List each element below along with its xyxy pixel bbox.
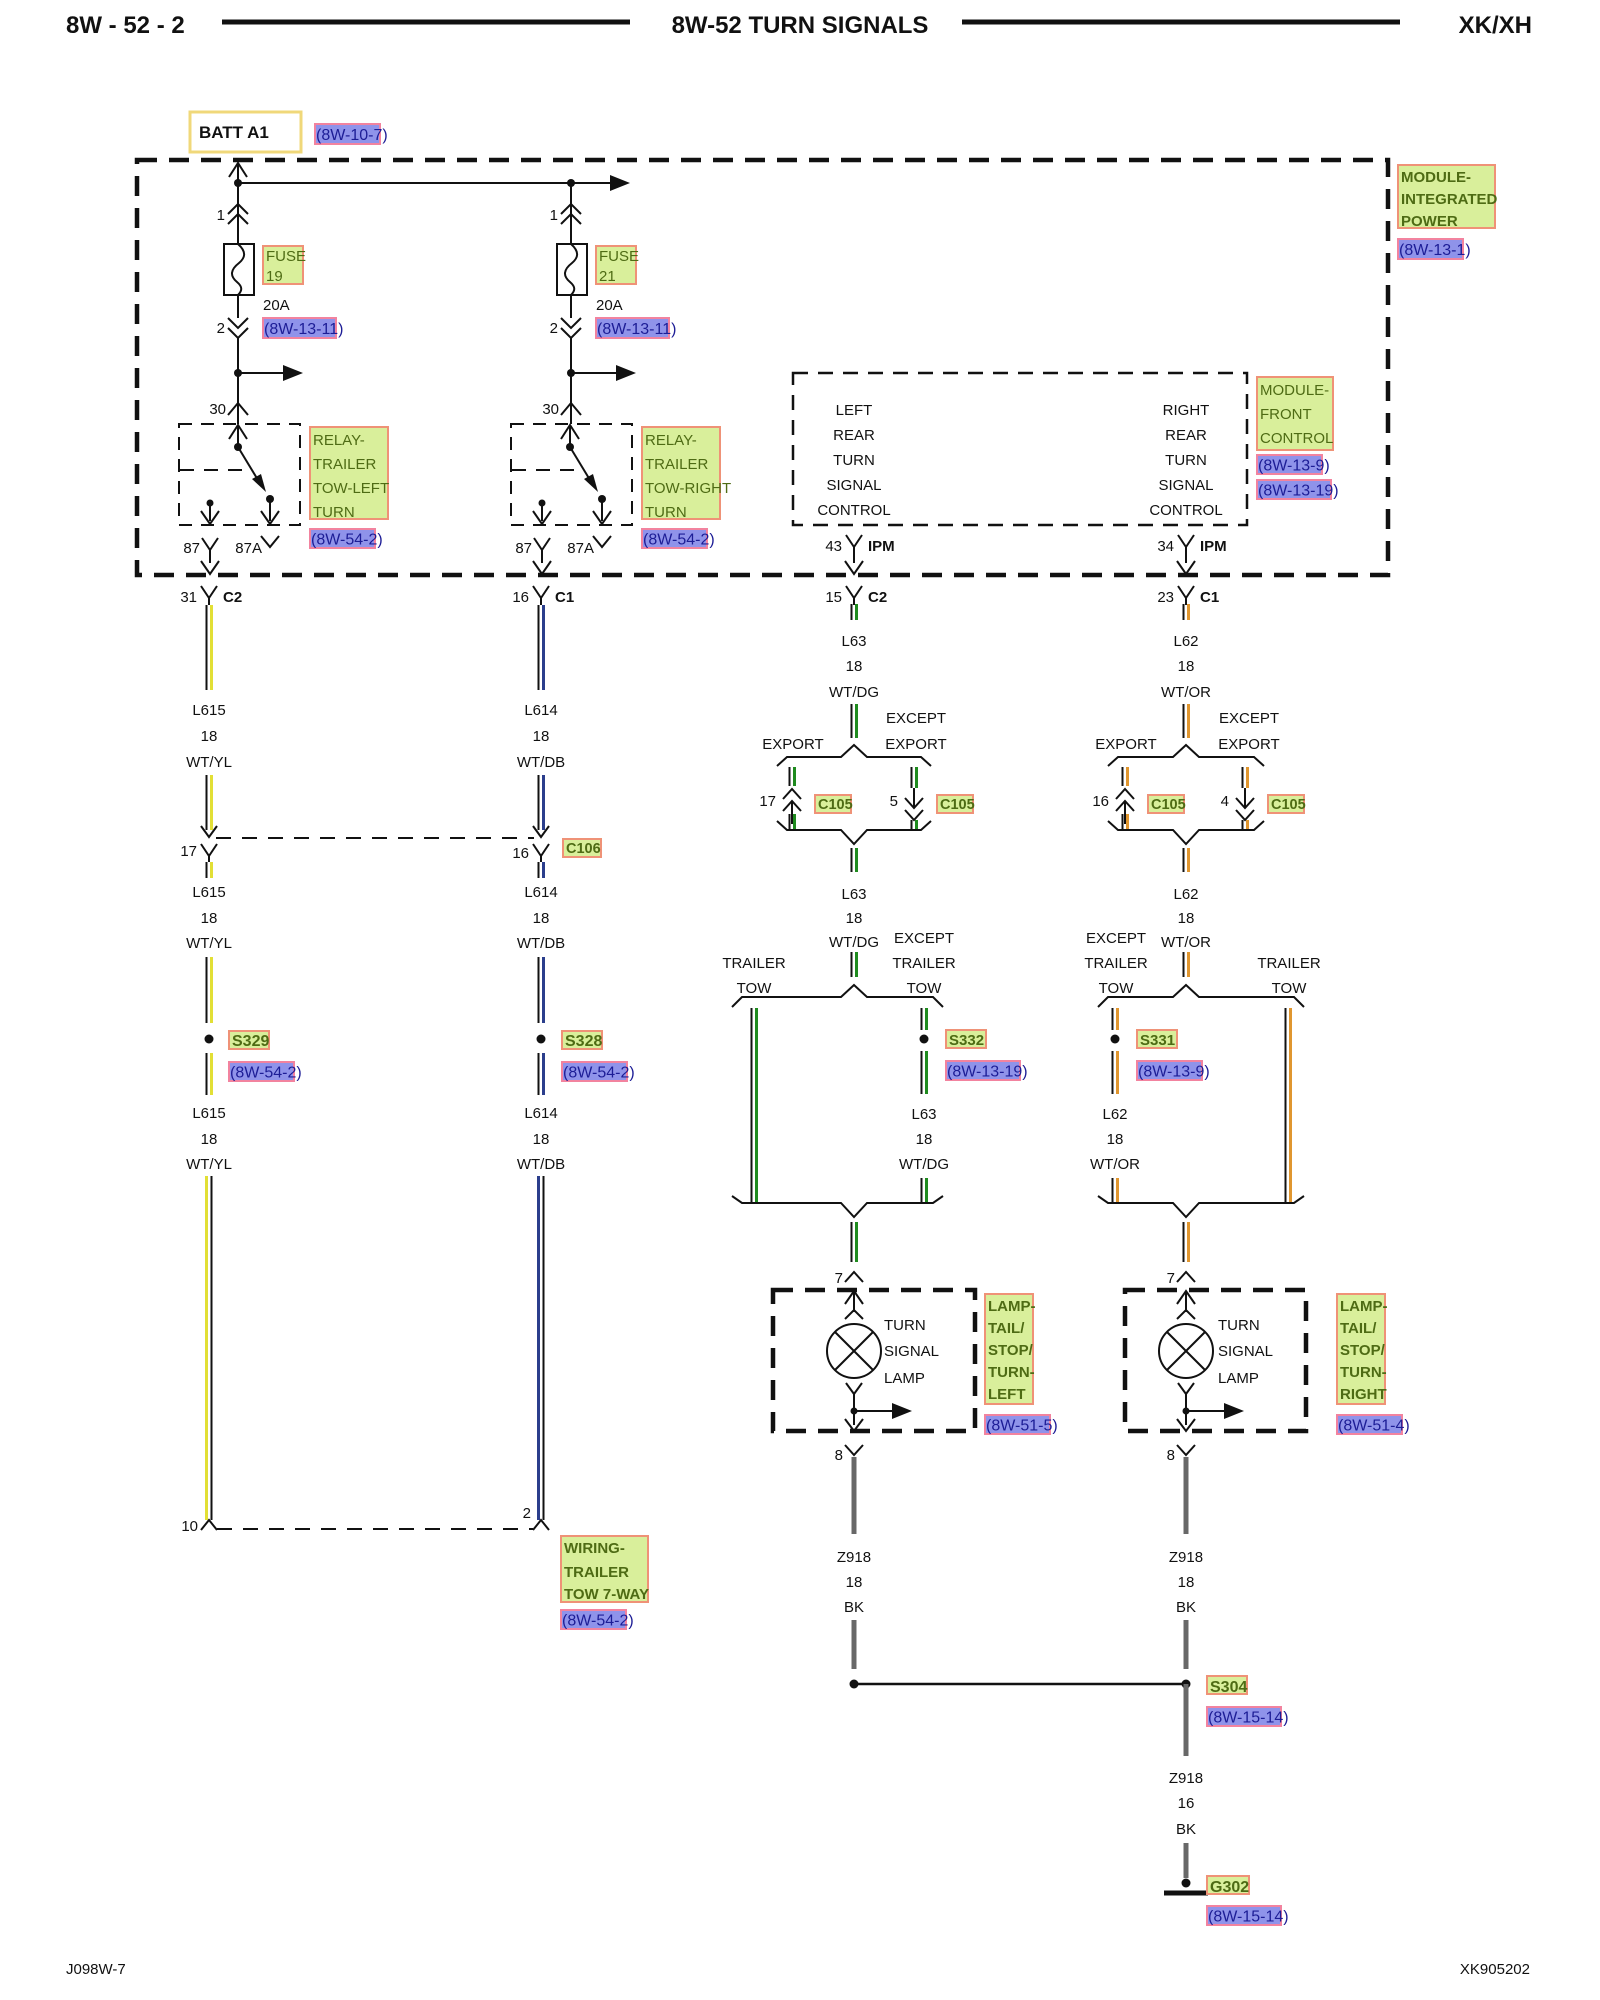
svg-text:TRAILER: TRAILER — [1084, 955, 1148, 972]
wire: to other lamp elements — [854, 1410, 896, 1412]
svg-text:MODULE-: MODULE- — [1260, 382, 1329, 399]
wire branch (export) via C105 pin 17 — [789, 767, 791, 786]
merge brace from C105 options — [777, 821, 931, 844]
svg-text:(8W-54-2): (8W-54-2) — [562, 1613, 634, 1630]
svg-text:S331: S331 — [1140, 1032, 1175, 1049]
wire L615 segment (WT/YL) — [206, 957, 208, 1023]
svg-text:(8W-10-7): (8W-10-7) — [316, 127, 388, 144]
wire branch (except export) via C105 pin 5 — [911, 767, 913, 788]
svg-text:WT/OR: WT/OR — [1090, 1156, 1140, 1173]
wire L615 long run to trailer tow connector — [205, 1176, 208, 1520]
svg-text:INTEGRATED: INTEGRATED — [1401, 191, 1498, 208]
svg-text:POWER: POWER — [1401, 213, 1458, 230]
wire L62 segment after export merge — [1183, 848, 1185, 872]
ground G302 — [1182, 1879, 1191, 1888]
svg-text:18: 18 — [846, 1574, 863, 1591]
svg-text:TRAILER: TRAILER — [892, 955, 956, 972]
svg-text:87A: 87A — [567, 540, 594, 557]
splice S329 — [205, 1035, 214, 1044]
power source box BATT A1 — [190, 112, 301, 152]
reference (8W-13-19) — [1257, 480, 1331, 499]
svg-text:1: 1 — [550, 207, 558, 224]
reference (8W-10-7) — [315, 124, 380, 144]
wire Z918 segment (BK) to ground — [1184, 1684, 1189, 1756]
svg-text:L614: L614 — [524, 884, 557, 901]
svg-text:(8W-54-2): (8W-54-2) — [230, 1065, 302, 1082]
wire L62 segment to export split — [1183, 704, 1185, 738]
merge brace to lamp feed — [1098, 1196, 1304, 1217]
wire: bus to fuse F19 — [237, 183, 239, 244]
svg-text:TURN: TURN — [884, 1317, 926, 1334]
turn signal lamp bulb — [827, 1324, 881, 1378]
svg-text:FUSE: FUSE — [599, 248, 639, 265]
svg-text:TRAILER: TRAILER — [313, 456, 377, 473]
reference (8W-54-2) — [229, 1062, 294, 1081]
fuse F21 — [557, 244, 587, 295]
svg-text:WT/DG: WT/DG — [829, 934, 879, 951]
svg-text:18: 18 — [846, 658, 863, 675]
svg-text:MODULE-: MODULE- — [1401, 169, 1471, 186]
wire branch (trailer tow) long run — [751, 1008, 753, 1203]
wire L615 segment (WT/YL) — [206, 605, 208, 690]
svg-text:19: 19 — [266, 268, 283, 285]
svg-text:(8W-54-2): (8W-54-2) — [563, 1065, 635, 1082]
wire L62 to lamp pin 7 — [1183, 1222, 1185, 1262]
svg-text:8: 8 — [835, 1447, 843, 1464]
svg-text:EXCEPT: EXCEPT — [894, 930, 954, 947]
wire branch to splice S332 — [921, 1008, 923, 1030]
lamp return node — [846, 1383, 862, 1394]
svg-text:TURN: TURN — [1218, 1317, 1260, 1334]
svg-text:REAR: REAR — [1165, 427, 1207, 444]
pin 2 in-line connector (fuse F19) — [237, 295, 239, 318]
svg-text:C2: C2 — [868, 589, 887, 606]
svg-text:EXPORT: EXPORT — [1095, 736, 1156, 753]
svg-text:(8W-13-9): (8W-13-9) — [1258, 458, 1330, 475]
svg-text:8W - 52 - 2: 8W - 52 - 2 — [66, 12, 185, 39]
svg-text:30: 30 — [542, 401, 559, 418]
relay contact 87 to box edge — [539, 500, 546, 507]
svg-text:TOW: TOW — [907, 980, 943, 997]
svg-text:17: 17 — [180, 843, 197, 860]
svg-text:87A: 87A — [235, 540, 262, 557]
svg-text:18: 18 — [846, 910, 863, 927]
node: bus tap at fuse 19 — [234, 179, 242, 187]
svg-text:XK905202: XK905202 — [1460, 1961, 1530, 1978]
svg-text:8: 8 — [1167, 1447, 1175, 1464]
svg-text:10: 10 — [181, 1518, 198, 1535]
wire L614 segment (WT/DB) — [538, 1053, 540, 1095]
svg-text:BK: BK — [844, 1599, 864, 1616]
svg-text:TOW-LEFT: TOW-LEFT — [313, 480, 389, 497]
wire Z918 segment (BK) — [1184, 1620, 1189, 1669]
wire: tap arrow to other circuits — [238, 372, 283, 374]
label MODULE-INTEGRATED POWER — [1398, 165, 1495, 228]
svg-text:STOP/: STOP/ — [988, 1342, 1034, 1359]
svg-text:17: 17 — [759, 793, 776, 810]
label RELAY-TRAILER TOW-LEFT TURN — [310, 427, 388, 519]
reference (8W-13-11) — [263, 318, 336, 338]
svg-text:7: 7 — [835, 1270, 843, 1287]
wire branch to splice S331 — [1112, 1008, 1114, 1030]
svg-text:LEFT: LEFT — [836, 402, 873, 419]
lamp assembly box (TURN-LEFT) — [773, 1290, 975, 1431]
svg-text:TRAILER: TRAILER — [1257, 955, 1321, 972]
svg-text:L63: L63 — [911, 1106, 936, 1123]
svg-text:C105: C105 — [818, 797, 853, 813]
svg-text:TRAILER: TRAILER — [564, 1564, 629, 1581]
wire L615 segment (WT/YL) — [206, 775, 208, 830]
svg-text:(8W-51-5): (8W-51-5) — [986, 1418, 1058, 1435]
label MODULE-FRONT CONTROL — [1257, 377, 1333, 450]
wire: tap to relay pin 30 — [237, 373, 239, 424]
wire: top power bus — [238, 182, 610, 184]
svg-text:21: 21 — [599, 268, 616, 285]
node: junction into S304 bus — [850, 1680, 859, 1689]
lamp feed from pin 7 — [1177, 1291, 1195, 1304]
svg-text:WT/DB: WT/DB — [517, 935, 565, 952]
wire branch (trailer tow) long run — [1285, 1008, 1287, 1203]
svg-text:LAMP-: LAMP- — [988, 1298, 1036, 1315]
lamp return node — [1178, 1383, 1194, 1394]
svg-text:RELAY-: RELAY- — [313, 432, 365, 449]
label C105 — [1268, 795, 1304, 813]
reference (8W-51-5) — [985, 1415, 1050, 1434]
splice S328 — [537, 1035, 546, 1044]
svg-text:TURN: TURN — [1165, 452, 1207, 469]
svg-text:FUSE: FUSE — [266, 248, 306, 265]
pin 10 at trailer-tow connector — [201, 1520, 217, 1530]
connector WIRING-TRAILER TOW 7-WAY (dashed in-line) — [217, 1528, 533, 1530]
svg-text:TURN: TURN — [645, 504, 687, 521]
svg-text:18: 18 — [1107, 1131, 1124, 1148]
svg-text:2: 2 — [550, 320, 558, 337]
svg-text:(8W-13-19): (8W-13-19) — [1258, 483, 1339, 500]
svg-text:EXCEPT: EXCEPT — [1086, 930, 1146, 947]
svg-text:(8W-54-2): (8W-54-2) — [643, 532, 715, 549]
wire Z918 segment (BK) right lamp — [1184, 1457, 1189, 1534]
svg-text:TURN: TURN — [833, 452, 875, 469]
wire L62 below splice — [1112, 1051, 1114, 1094]
relay K-trailer-tow right turn (dashed box) — [511, 424, 632, 525]
wire: fuse to relay tap — [570, 338, 572, 373]
node: tap junction — [567, 369, 575, 377]
node: bus tap at fuse 21 — [567, 179, 575, 187]
connector C106 (dashed in-line) — [216, 837, 534, 839]
svg-text:C2: C2 — [223, 589, 242, 606]
wire L63 segment to trailer-tow split — [851, 952, 853, 977]
svg-text:EXPORT: EXPORT — [762, 736, 823, 753]
header rule left — [222, 20, 630, 25]
relay contact 87 to box edge — [207, 500, 214, 507]
svg-text:18: 18 — [1178, 658, 1195, 675]
svg-text:CONTROL: CONTROL — [817, 502, 890, 519]
svg-text:TRAILER: TRAILER — [722, 955, 786, 972]
svg-text:J098W-7: J098W-7 — [66, 1961, 126, 1978]
svg-text:L615: L615 — [192, 884, 225, 901]
pin 8 — [845, 1445, 863, 1455]
svg-text:TURN: TURN — [313, 504, 355, 521]
svg-text:CONTROL: CONTROL — [1149, 502, 1222, 519]
svg-text:Z918: Z918 — [837, 1549, 871, 1566]
svg-text:WT/YL: WT/YL — [186, 1156, 232, 1173]
svg-text:1: 1 — [217, 207, 225, 224]
label RELAY-TRAILER TOW-RIGHT TURN — [642, 427, 720, 519]
svg-text:WT/OR: WT/OR — [1161, 934, 1211, 951]
pin 30 — [561, 403, 581, 415]
reference (8W-13-19) — [946, 1061, 1020, 1080]
wire L614 segment (WT/DB) — [538, 957, 540, 1023]
svg-text:S304: S304 — [1210, 1679, 1247, 1696]
svg-text:XK/XH: XK/XH — [1459, 12, 1532, 39]
label WIRING-TRAILER TOW 7-WAY — [561, 1536, 648, 1602]
merge brace to lamp feed — [732, 1196, 943, 1217]
wire Z918 segment (BK) — [1184, 1843, 1189, 1878]
svg-text:L63: L63 — [841, 633, 866, 650]
svg-text:18: 18 — [533, 1131, 550, 1148]
reference (8W-13-11) — [596, 318, 669, 338]
reference (8W-54-2) — [562, 1062, 627, 1081]
wire: BATT A1 feed into module — [229, 163, 247, 177]
svg-text:18: 18 — [1178, 1574, 1195, 1591]
svg-text:16: 16 — [1178, 1795, 1195, 1812]
reference (8W-54-2) — [642, 529, 707, 548]
svg-text:EXCEPT: EXCEPT — [886, 710, 946, 727]
wire: tap arrow to other circuits — [571, 372, 616, 374]
svg-text:31: 31 — [180, 589, 197, 606]
splice S304 — [1182, 1680, 1191, 1689]
svg-text:(8W-13-1): (8W-13-1) — [1399, 242, 1471, 259]
relay coil divider (dashed) — [180, 469, 245, 471]
label FUSE 19 — [263, 246, 303, 284]
reference (8W-54-2) — [561, 1610, 626, 1629]
svg-text:87: 87 — [515, 540, 532, 557]
svg-text:TURN-: TURN- — [1340, 1364, 1387, 1381]
svg-text:WT/YL: WT/YL — [186, 754, 232, 771]
split brace to C105 options — [777, 745, 931, 766]
merge brace from C105 options — [1108, 821, 1264, 844]
svg-text:(8W-51-4): (8W-51-4) — [1338, 1418, 1410, 1435]
pin 1 in-line connector (fuse F19) — [228, 204, 248, 214]
relay switch arm — [570, 447, 590, 480]
svg-text:WT/YL: WT/YL — [186, 935, 232, 952]
wire: tap to relay pin 30 — [570, 373, 572, 424]
reference (8W-54-2) — [310, 529, 375, 548]
svg-text:BATT A1: BATT A1 — [199, 123, 269, 142]
pin 8 — [1177, 1445, 1195, 1455]
wire L63 segment after export merge — [851, 848, 853, 872]
svg-text:18: 18 — [201, 910, 218, 927]
svg-text:C106: C106 — [566, 841, 601, 857]
svg-text:C1: C1 — [555, 589, 574, 606]
svg-text:34: 34 — [1157, 538, 1174, 555]
relay common feed — [229, 425, 247, 439]
svg-text:EXCEPT: EXCEPT — [1219, 710, 1279, 727]
svg-text:FRONT: FRONT — [1260, 406, 1312, 423]
pin 7 — [845, 1272, 863, 1282]
svg-text:L614: L614 — [524, 702, 557, 719]
wire: 87 to module edge — [209, 558, 211, 563]
reference (8W-13-9) — [1257, 455, 1322, 474]
svg-text:BK: BK — [1176, 1599, 1196, 1616]
svg-text:RIGHT: RIGHT — [1163, 402, 1210, 419]
svg-text:CONTROL: CONTROL — [1260, 430, 1333, 447]
svg-text:IPM: IPM — [868, 538, 895, 555]
svg-text:(8W-54-2): (8W-54-2) — [311, 532, 383, 549]
turn signal lamp bulb — [1159, 1324, 1213, 1378]
wire: ground tie line to S304 — [858, 1683, 1182, 1686]
svg-text:L615: L615 — [192, 1105, 225, 1122]
split brace to C105 options — [1108, 745, 1264, 766]
svg-text:TRAILER: TRAILER — [645, 456, 709, 473]
split brace trailer-tow options — [1098, 985, 1304, 1007]
label C106 — [563, 839, 601, 857]
node: tap junction — [234, 369, 242, 377]
svg-text:L614: L614 — [524, 1105, 557, 1122]
svg-text:SIGNAL: SIGNAL — [1158, 477, 1213, 494]
svg-text:S332: S332 — [949, 1032, 984, 1049]
module-integrated power boundary (dashed) — [137, 160, 1388, 575]
splice S332 — [920, 1035, 929, 1044]
pin 2 at trailer-tow connector — [533, 1520, 549, 1530]
wire: 87 to module edge — [541, 558, 543, 563]
svg-text:L63: L63 — [841, 886, 866, 903]
svg-text:C1: C1 — [1200, 589, 1219, 606]
wire: fuse to relay tap — [237, 338, 239, 373]
svg-text:IPM: IPM — [1200, 538, 1227, 555]
relay contact 87A to box edge — [601, 499, 603, 521]
module-front control boundary (dashed) — [793, 373, 1247, 525]
svg-text:16: 16 — [512, 845, 529, 862]
svg-text:L615: L615 — [192, 702, 225, 719]
svg-text:WT/DG: WT/DG — [829, 684, 879, 701]
reference (8W-15-14) — [1207, 1707, 1281, 1726]
pin 1 in-line connector (fuse F21) — [561, 204, 581, 214]
svg-text:WT/DB: WT/DB — [517, 1156, 565, 1173]
relay coil divider (dashed) — [512, 469, 577, 471]
wire L62 segment to trailer-tow split — [1183, 952, 1185, 977]
svg-text:LAMP-: LAMP- — [1340, 1298, 1388, 1315]
pin 7 — [1177, 1272, 1195, 1282]
svg-text:L62: L62 — [1173, 886, 1198, 903]
header rule right — [962, 20, 1400, 25]
svg-text:LAMP: LAMP — [884, 1370, 925, 1387]
svg-text:L62: L62 — [1102, 1106, 1127, 1123]
fuse F19 — [224, 244, 254, 295]
svg-text:EXPORT: EXPORT — [1218, 736, 1279, 753]
svg-text:Z918: Z918 — [1169, 1770, 1203, 1787]
wire L614 segment (WT/DB) — [538, 605, 540, 690]
lamp feed from pin 7 — [845, 1291, 863, 1304]
svg-text:LEFT: LEFT — [988, 1386, 1026, 1403]
svg-text:87: 87 — [183, 540, 200, 557]
wire L614 segment (WT/DB) — [538, 775, 540, 830]
label FUSE 21 — [596, 246, 636, 284]
svg-text:(8W-13-11): (8W-13-11) — [264, 321, 343, 338]
wire branch (except export) via C105 pin 4 — [1242, 767, 1244, 788]
wire L615 segment (WT/YL) — [206, 1053, 208, 1095]
svg-text:TAIL/: TAIL/ — [1340, 1320, 1377, 1337]
pin 30 — [228, 403, 248, 415]
svg-text:18: 18 — [533, 728, 550, 745]
relay contact 87A to box edge — [269, 499, 271, 521]
wire Z918 segment (BK) — [852, 1620, 857, 1669]
svg-text:18: 18 — [1178, 910, 1195, 927]
svg-text:WIRING-: WIRING- — [564, 1540, 625, 1557]
label C105 — [815, 795, 851, 813]
pin 2 in-line connector (fuse F21) — [570, 295, 572, 318]
svg-text:(8W-15-14): (8W-15-14) — [1208, 1909, 1289, 1926]
wire L62 segment from connector — [1183, 604, 1185, 620]
svg-text:S328: S328 — [565, 1033, 602, 1050]
svg-text:(8W-13-11): (8W-13-11) — [597, 321, 676, 338]
svg-text:2: 2 — [217, 320, 225, 337]
svg-text:16: 16 — [512, 589, 529, 606]
svg-text:WT/OR: WT/OR — [1161, 684, 1211, 701]
svg-text:20A: 20A — [263, 297, 290, 314]
svg-text:C105: C105 — [1271, 797, 1306, 813]
svg-text:TAIL/: TAIL/ — [988, 1320, 1025, 1337]
reference (8W-15-14) — [1207, 1906, 1281, 1925]
svg-text:WT/DG: WT/DG — [899, 1156, 949, 1173]
svg-text:EXPORT: EXPORT — [885, 736, 946, 753]
svg-text:TOW: TOW — [737, 980, 773, 997]
label C105 — [1148, 795, 1184, 813]
wire L614 long run to trailer tow connector — [537, 1176, 540, 1520]
svg-text:16: 16 — [1092, 793, 1109, 810]
label LAMP-TAIL/STOP/TURN-RIGHT — [1337, 1294, 1385, 1404]
svg-text:TOW 7-WAY: TOW 7-WAY — [564, 1586, 649, 1603]
wire Z918 segment (BK) left lamp — [852, 1457, 857, 1534]
svg-text:SIGNAL: SIGNAL — [1218, 1343, 1273, 1360]
wire: bus to fuse F21 — [570, 183, 572, 244]
wire L63 to lamp pin 7 — [851, 1222, 853, 1262]
svg-text:18: 18 — [201, 728, 218, 745]
relay K-trailer-tow left turn (dashed box) — [179, 424, 300, 525]
svg-text:BK: BK — [1176, 1821, 1196, 1838]
svg-text:C105: C105 — [940, 797, 975, 813]
svg-text:SIGNAL: SIGNAL — [884, 1343, 939, 1360]
reference (8W-51-4) — [1337, 1415, 1402, 1434]
svg-text:STOP/: STOP/ — [1340, 1342, 1386, 1359]
splice S331 — [1111, 1035, 1120, 1044]
svg-text:20A: 20A — [596, 297, 623, 314]
svg-text:18: 18 — [533, 910, 550, 927]
svg-text:Z918: Z918 — [1169, 1549, 1203, 1566]
svg-text:REAR: REAR — [833, 427, 875, 444]
wire L63 segment from connector — [851, 604, 853, 620]
relay common feed — [561, 425, 579, 439]
svg-text:S329: S329 — [232, 1033, 269, 1050]
svg-text:18: 18 — [916, 1131, 933, 1148]
wire L615 stub below C106 — [206, 862, 208, 878]
svg-text:23: 23 — [1157, 589, 1174, 606]
svg-text:TOW: TOW — [1099, 980, 1135, 997]
svg-text:(8W-13-9): (8W-13-9) — [1138, 1064, 1210, 1081]
svg-text:LAMP: LAMP — [1218, 1370, 1259, 1387]
wire L63 segment to export split — [851, 704, 853, 738]
label LAMP-TAIL/STOP/TURN-LEFT — [985, 1294, 1033, 1404]
svg-text:TURN-: TURN- — [988, 1364, 1035, 1381]
wire branch (export) via C105 pin 16 — [1122, 767, 1124, 786]
svg-text:18: 18 — [201, 1131, 218, 1148]
svg-text:(8W-15-14): (8W-15-14) — [1208, 1710, 1289, 1727]
svg-text:RELAY-: RELAY- — [645, 432, 697, 449]
relay switch arm — [238, 447, 258, 480]
svg-text:4: 4 — [1221, 793, 1229, 810]
wire: lamp ground out — [853, 1411, 855, 1425]
svg-text:TOW: TOW — [1272, 980, 1308, 997]
